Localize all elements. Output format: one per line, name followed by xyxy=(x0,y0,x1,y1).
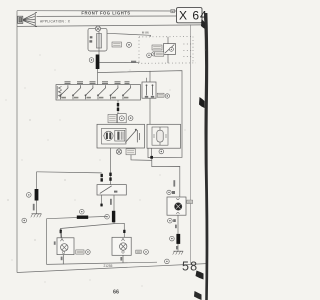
splice circle xyxy=(127,42,132,47)
right lamp circle mark upper xyxy=(167,190,175,194)
wire feed to relay plate xyxy=(107,33,151,37)
lamp circle mark xyxy=(86,250,91,255)
page frame xyxy=(17,10,177,12)
wire fuse down xyxy=(98,51,100,55)
stub pin mark xyxy=(150,156,153,159)
circle mark xyxy=(168,218,176,223)
ground G2 xyxy=(173,251,184,254)
module top connector circle box xyxy=(117,114,126,123)
ground circle mark xyxy=(165,259,170,264)
right fog lamp L3 xyxy=(167,197,186,215)
wire module to relay xyxy=(110,148,112,185)
fuse value marks xyxy=(89,36,92,42)
enclosure connector bar xyxy=(77,216,88,219)
contact label box xyxy=(157,93,164,97)
lamp label box xyxy=(136,250,141,253)
module top label box xyxy=(108,114,117,122)
svg-text:M 86: M 86 xyxy=(142,31,149,35)
relay output wire xyxy=(113,195,115,224)
scan edge streak xyxy=(194,13,208,300)
wire contact box down xyxy=(149,98,151,124)
harness pigtail icon xyxy=(18,13,37,27)
relay stub wires xyxy=(167,37,169,63)
wire pin marks xyxy=(117,103,119,111)
wire branch to middle lamp xyxy=(114,223,124,237)
dotted relay plate xyxy=(138,37,196,64)
clamp circle on fuse box xyxy=(95,26,100,31)
wire labels above switch xyxy=(65,81,130,84)
middle fog lamp L2 xyxy=(112,237,131,262)
lamp unit inner box xyxy=(152,127,168,145)
pin marks xyxy=(101,174,103,182)
connector bar xyxy=(176,234,180,244)
connector bar xyxy=(96,55,100,70)
front lamps enclosure xyxy=(47,216,158,264)
connector bar xyxy=(112,211,115,223)
svg-text:APPLICATION : X: APPLICATION : X xyxy=(40,20,71,24)
wire branch to relay coil xyxy=(99,62,139,64)
wire label marks xyxy=(131,61,136,63)
lamp unit cylinder xyxy=(154,127,166,145)
wire colour label xyxy=(173,180,175,186)
relay label box xyxy=(152,45,162,50)
motor symbol xyxy=(103,131,113,140)
svg-text:21255: 21255 xyxy=(104,264,113,268)
splice circle xyxy=(105,214,110,219)
stub circle mark xyxy=(159,149,164,154)
svg-text:FRONT FOG LIGHTS: FRONT FOG LIGHTS xyxy=(81,11,130,16)
wire switch to module xyxy=(117,100,119,114)
lamp terminal label xyxy=(120,257,122,261)
wire colour label xyxy=(176,246,178,249)
module bottom splice circle xyxy=(116,149,121,154)
resistor element box xyxy=(115,130,125,141)
module switch contact xyxy=(125,129,139,143)
instrument contact box xyxy=(142,82,156,98)
relay stub left xyxy=(101,195,103,206)
wire colour label xyxy=(33,204,35,211)
X 64 page box xyxy=(177,8,208,23)
ground G1 xyxy=(31,214,42,218)
connector bar xyxy=(35,189,39,201)
wire to right fog lamp xyxy=(152,159,180,197)
cluster label box xyxy=(155,52,164,56)
lamp terminal labels xyxy=(54,241,63,260)
relay contact box lower xyxy=(97,185,126,195)
right lamp ground wire xyxy=(177,215,179,251)
svg-text:X 64: X 64 xyxy=(179,9,208,23)
splice circle xyxy=(170,236,175,241)
left fog lamp L1 xyxy=(57,231,74,264)
control module box xyxy=(97,124,145,148)
header band bottom rule xyxy=(17,25,202,27)
fuse F xyxy=(97,31,102,51)
lamp unit bottom stub xyxy=(151,148,153,159)
contact circle mark xyxy=(165,94,169,98)
title rule xyxy=(37,15,177,17)
splice circle xyxy=(27,193,32,198)
wire branch to left lamp xyxy=(61,224,115,238)
pin marks xyxy=(109,173,111,181)
lamp circle mark xyxy=(144,250,149,255)
cluster circle under plate xyxy=(147,53,152,58)
right lamp label box xyxy=(187,200,193,203)
wire module to lamp unit xyxy=(131,155,152,161)
left column wire xyxy=(36,172,38,214)
wire branch to right unit xyxy=(98,71,183,158)
wire colour label xyxy=(175,225,177,229)
contact box stub xyxy=(147,71,151,82)
relay K xyxy=(164,44,176,55)
module bottom label box xyxy=(126,149,135,155)
ground circle mark xyxy=(22,218,27,223)
wire to switch xyxy=(97,69,99,85)
lighting switch box xyxy=(56,85,141,100)
lamp label box xyxy=(76,250,84,254)
label box 233 xyxy=(112,42,122,47)
enclosure circle mark xyxy=(80,209,85,214)
relay circle mark xyxy=(152,52,156,56)
connector circle xyxy=(89,58,94,63)
svg-text:58: 58 xyxy=(182,260,198,274)
superscript x box xyxy=(171,9,175,13)
module inner box xyxy=(102,128,127,144)
svg-text:66: 66 xyxy=(113,290,119,296)
long wire from left column xyxy=(37,172,102,173)
switch connector chevrons xyxy=(57,86,61,99)
lamp unit outer box xyxy=(147,124,181,148)
pin mark xyxy=(60,230,62,234)
pin mark xyxy=(123,230,125,233)
wire colour label xyxy=(110,199,112,205)
stub pin xyxy=(100,204,102,207)
switch contacts S1..S6 xyxy=(60,85,131,99)
fuse holder box xyxy=(88,28,107,51)
splice circle right xyxy=(128,116,133,121)
switch terminal labels xyxy=(62,97,129,99)
